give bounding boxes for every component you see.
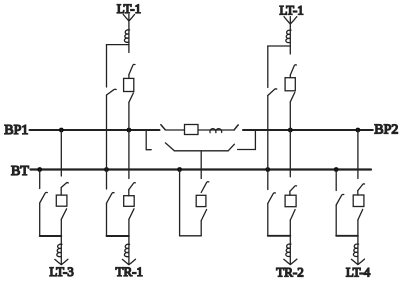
disconnector LT-1 left upper bbox=[129, 64, 135, 74]
line arrow LT-1 right bbox=[284, 17, 297, 24]
breaker LT-4 bbox=[353, 195, 364, 207]
wire LT-1 left split bbox=[107, 44, 129, 46]
wire LT-4 bbox=[357, 191, 359, 195]
node transfer bay on BT bbox=[177, 167, 182, 172]
wire TR-2 lower bbox=[289, 220, 291, 264]
node LT-3 main on BP1 bbox=[59, 128, 64, 133]
disconnector LT-3 bypass bbox=[40, 170, 48, 237]
disconnector LT-1 right lower bbox=[290, 92, 295, 101]
disconnector TR-1 upper bbox=[129, 183, 136, 190]
svg-text:BT: BT bbox=[11, 164, 29, 179]
wire LT-1 right split bbox=[268, 45, 291, 47]
bus BT bbox=[31, 168, 372, 170]
breaker LT-1 right bbox=[285, 78, 295, 91]
disconnector TR-2 lower bbox=[290, 210, 295, 221]
bus BP1 left segment bbox=[30, 129, 160, 131]
disconnector LT-1 right bypass bbox=[268, 46, 277, 170]
wire TR-1 bbox=[128, 190, 130, 196]
wire LT-1 left to BP1 bbox=[128, 102, 130, 130]
wire TR-1 main from BP1 bbox=[128, 130, 130, 179]
node LT-4 bypass on BT bbox=[334, 167, 339, 172]
wire TR-2 bbox=[289, 191, 291, 195]
wire coupler bbox=[165, 129, 184, 131]
svg-text:BP2: BP2 bbox=[374, 122, 398, 137]
wire TR-2 hook bbox=[268, 235, 291, 237]
disconnector LT-4 bypass bbox=[336, 170, 344, 236]
wire LT-1 right stem bbox=[289, 17, 291, 54]
breaker LT-3 bbox=[56, 195, 67, 206]
line trap coil LT-1 left bbox=[124, 30, 129, 42]
disconnector TR-2 bypass bbox=[268, 170, 276, 236]
bus BP2 right segment bbox=[243, 129, 373, 131]
wire TR-1 hook bbox=[107, 235, 129, 237]
disconnector TR-2 upper bbox=[290, 186, 297, 192]
wire LT-4 hook bbox=[336, 235, 358, 237]
svg-text:LT-4: LT-4 bbox=[346, 265, 371, 280]
svg-text:LT-1: LT-1 bbox=[279, 2, 303, 17]
svg-text:TR-2: TR-2 bbox=[276, 264, 303, 279]
bypass disconnector left bbox=[165, 143, 174, 151]
node LT-4 main on BP2 bbox=[356, 128, 361, 133]
wire coupler bbox=[198, 129, 234, 131]
wire bypass left stub bbox=[146, 130, 151, 150]
wire TR-1 lower bbox=[128, 219, 130, 264]
wire bypass horizontal bbox=[174, 150, 228, 152]
disconnector LT-4 upper bbox=[358, 184, 365, 191]
node LT-1/TR-1 main on BP1 bbox=[126, 128, 131, 133]
wire transfer left branch bbox=[180, 170, 202, 236]
wire transfer bay drop bbox=[200, 151, 202, 179]
line coil LT-4 bbox=[353, 244, 358, 256]
breaker LT-1 left bbox=[124, 78, 134, 91]
coupler disconnector right bbox=[234, 125, 238, 130]
coupler breaker bbox=[185, 125, 199, 135]
wire LT-3 main from BP1 bbox=[60, 130, 62, 176]
coupler disconnector left bbox=[161, 125, 165, 130]
disconnector LT-4 lower bbox=[358, 209, 363, 220]
breaker transfer bbox=[196, 195, 206, 206]
bypass disconnector right bbox=[228, 144, 234, 151]
disconnector transfer lower bbox=[201, 210, 206, 221]
wire bbox=[289, 75, 291, 78]
wire LT-1 right to BP1 bbox=[289, 102, 291, 130]
node LT-1/TR-1 bypass on BT bbox=[104, 167, 109, 172]
line arrow LT-3 bbox=[55, 259, 68, 265]
breaker TR-2 bbox=[285, 195, 296, 207]
disconnector LT-1 left lower bbox=[129, 93, 134, 102]
node LT-3 bypass on BT bbox=[37, 167, 42, 172]
node LT-1/TR-2 bypass on BT bbox=[265, 167, 270, 172]
disconnector TR-1 lower bbox=[129, 209, 134, 220]
node LT-1/TR-2 main on BP1 bbox=[288, 128, 293, 133]
wire bypass right stub bbox=[238, 130, 256, 150]
wire LT-3 lower bbox=[60, 219, 62, 264]
wire LT-1 left stem bbox=[128, 14, 130, 52]
line coil TR-1 bbox=[124, 244, 129, 256]
svg-text:BP1: BP1 bbox=[4, 123, 28, 138]
breaker TR-1 bbox=[124, 196, 135, 207]
line arrow TR-1 bbox=[122, 259, 135, 265]
disconnector transfer upper bbox=[201, 182, 209, 193]
disconnector LT-3 lower bbox=[61, 209, 66, 220]
wire bbox=[128, 75, 130, 79]
svg-text:LT-3: LT-3 bbox=[49, 264, 73, 279]
line arrow LT-4 bbox=[351, 259, 364, 265]
wire LT-3 bbox=[60, 188, 62, 196]
disconnector LT-3 upper bbox=[61, 183, 68, 188]
line coil LT-3 bbox=[57, 244, 62, 256]
line arrow TR-2 bbox=[284, 259, 297, 265]
line trap coil LT-1 right bbox=[286, 30, 291, 42]
wire LT-3 hook bbox=[40, 235, 62, 237]
svg-text:TR-1: TR-1 bbox=[116, 264, 143, 279]
disconnector TR-1 bypass bbox=[107, 170, 115, 237]
disconnector LT-1 right upper bbox=[290, 65, 296, 75]
disconnector LT-1 left bypass bbox=[107, 45, 117, 170]
coupler CT coil bbox=[210, 129, 222, 133]
line coil TR-2 bbox=[286, 244, 291, 256]
wire TR-2 main from BP1 bbox=[289, 130, 291, 177]
wire LT-4 main from BP2 bbox=[357, 130, 359, 179]
wire LT-4 lower bbox=[357, 220, 359, 264]
line arrow LT-1 left bbox=[123, 15, 134, 22]
wire transfer bottom bbox=[200, 221, 202, 236]
